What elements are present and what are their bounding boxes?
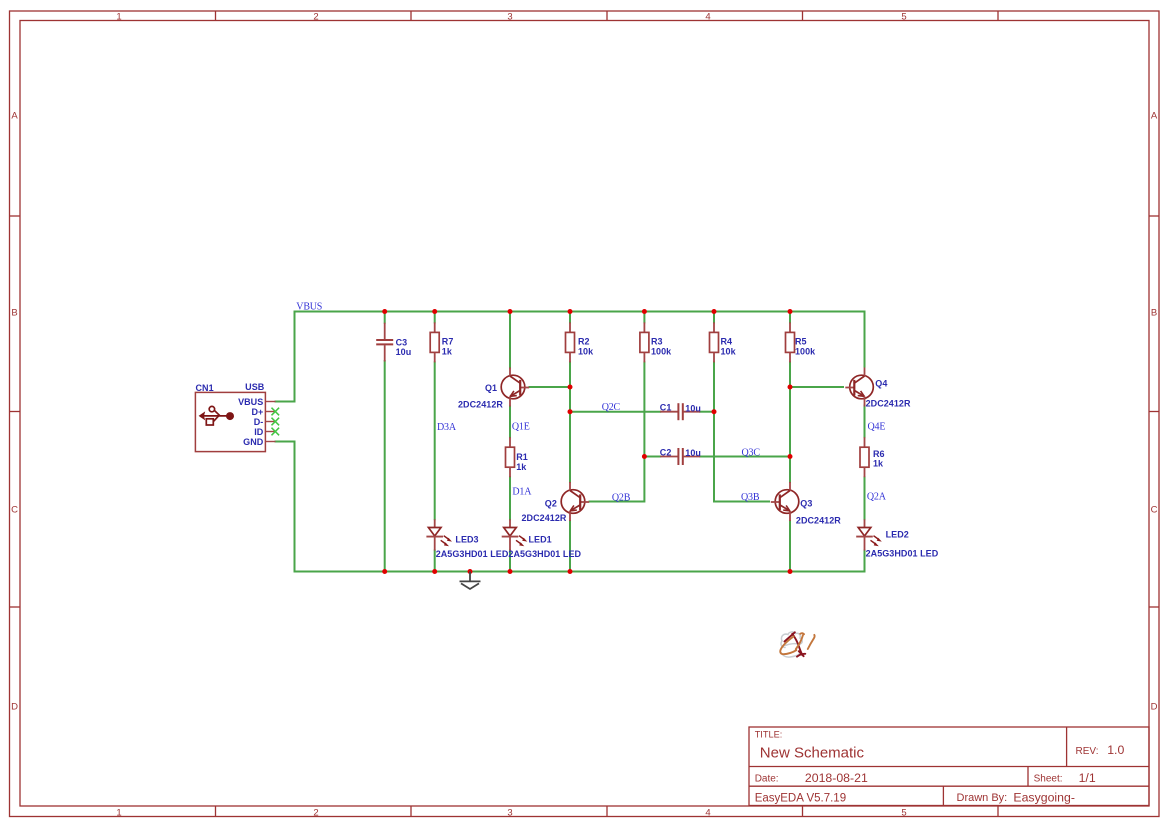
wire LED3 to rail bbox=[434, 551, 436, 572]
svg-text:2DC2412R: 2DC2412R bbox=[796, 515, 841, 525]
wire R5 bottom bbox=[789, 362, 791, 456]
node Q4 base bbox=[788, 385, 793, 390]
svg-text:Easygoing-: Easygoing- bbox=[1013, 791, 1075, 805]
resistor R2 bbox=[566, 322, 575, 362]
svg-text:GND: GND bbox=[243, 437, 264, 447]
svg-text:1: 1 bbox=[116, 12, 121, 23]
node Q3C/R3 bbox=[642, 454, 647, 459]
wire Q4 base from R5 column bbox=[790, 386, 843, 388]
pin GND bbox=[265, 441, 275, 443]
svg-text:1k: 1k bbox=[873, 459, 884, 469]
wire Q3 collector bbox=[789, 457, 791, 483]
node C3/VBUS bbox=[382, 309, 387, 314]
svg-text:D1A: D1A bbox=[512, 486, 532, 497]
node R3/VBUS bbox=[642, 309, 647, 314]
node C1/R4 bbox=[712, 409, 717, 414]
pin ID bbox=[265, 431, 274, 433]
wire C2 left (net Q3C) bbox=[644, 456, 660, 458]
wire Q2 base to R3 column (net Q2B) bbox=[590, 457, 645, 502]
svg-text:A: A bbox=[1151, 111, 1158, 122]
node R4/VBUS bbox=[712, 309, 717, 314]
node Q1 base bbox=[568, 385, 573, 390]
svg-text:Q2B: Q2B bbox=[612, 493, 631, 504]
wire R4 top bbox=[713, 312, 715, 323]
svg-text:10u: 10u bbox=[685, 448, 701, 458]
no-connect X on ID bbox=[272, 428, 280, 436]
svg-text:2A5G3HD01 LED: 2A5G3HD01 LED bbox=[508, 549, 581, 559]
wire Q1 base to R2 column bbox=[530, 386, 571, 388]
svg-text:Q2C: Q2C bbox=[602, 402, 621, 413]
svg-text:Q2: Q2 bbox=[545, 499, 557, 509]
node LED1/gnd rail bbox=[508, 569, 513, 574]
svg-text:1/1: 1/1 bbox=[1079, 771, 1096, 785]
node R7/VBUS bbox=[432, 309, 437, 314]
svg-text:C3: C3 bbox=[396, 338, 408, 348]
no-connect X on D- bbox=[272, 418, 280, 426]
signature scribble bbox=[780, 632, 814, 657]
transistor Q1 (2DC2412R NPN) bbox=[501, 368, 529, 407]
resistor R3 bbox=[640, 322, 649, 362]
svg-text:Q3: Q3 bbox=[800, 498, 812, 508]
LED LED3 (2A5G3HD01) bbox=[426, 519, 452, 550]
svg-text:4: 4 bbox=[705, 12, 710, 23]
svg-text:100k: 100k bbox=[795, 346, 816, 356]
svg-text:Q4: Q4 bbox=[875, 378, 887, 388]
node LED3/gnd rail bbox=[432, 569, 437, 574]
svg-text:LED2: LED2 bbox=[886, 530, 909, 540]
svg-text:10u: 10u bbox=[396, 347, 412, 357]
svg-text:ID: ID bbox=[254, 427, 264, 437]
svg-text:D3A: D3A bbox=[437, 422, 457, 433]
wire LED1 to rail bbox=[509, 551, 511, 572]
wire Q1 emitter to R1 (net Q1E) bbox=[509, 407, 511, 438]
svg-text:C2: C2 bbox=[660, 447, 672, 457]
svg-text:1k: 1k bbox=[442, 346, 453, 356]
svg-text:A: A bbox=[11, 111, 18, 122]
wire Q4 emitter to R6 (net Q4E) bbox=[864, 406, 866, 438]
transistor Q3 (2DC2412R NPN, mirrored) bbox=[771, 482, 799, 521]
svg-text:LED3: LED3 bbox=[455, 534, 478, 544]
node C3/gnd rail bbox=[382, 569, 387, 574]
USB icon bbox=[204, 406, 227, 425]
svg-text:5: 5 bbox=[901, 12, 906, 23]
wire R1 to LED1 (net D1A) bbox=[509, 477, 511, 519]
node Q2C bbox=[568, 409, 573, 414]
svg-text:D: D bbox=[1151, 702, 1158, 713]
svg-text:1k: 1k bbox=[516, 462, 527, 472]
svg-text:D-: D- bbox=[254, 417, 264, 427]
svg-text:Sheet:: Sheet: bbox=[1034, 774, 1063, 785]
svg-text:1: 1 bbox=[116, 808, 121, 819]
svg-text:Q1: Q1 bbox=[485, 383, 497, 393]
resistor R1 bbox=[506, 437, 515, 477]
svg-text:2: 2 bbox=[313, 808, 318, 819]
wire C1 to R4 column bbox=[700, 411, 714, 413]
wire C3 bottom bbox=[384, 361, 386, 572]
wire C3 top bbox=[384, 312, 386, 323]
svg-text:B: B bbox=[1151, 308, 1157, 319]
wire Q3 emitter to rail bbox=[789, 521, 791, 572]
svg-text:5: 5 bbox=[901, 808, 906, 819]
capacitor C1 bbox=[660, 403, 700, 420]
wire R3 bottom bbox=[643, 362, 645, 456]
wire R2 top bbox=[569, 312, 571, 323]
ground symbol bbox=[460, 572, 481, 590]
wire R7 top bbox=[434, 312, 436, 323]
wire C2 right to R5 column bbox=[700, 456, 790, 458]
svg-text:100k: 100k bbox=[651, 346, 672, 356]
svg-text:Drawn By:: Drawn By: bbox=[957, 792, 1008, 804]
wire bottom GND rail bbox=[295, 551, 865, 572]
svg-text:VBUS: VBUS bbox=[296, 301, 322, 312]
wire VBUS from CN1 to rail bbox=[276, 312, 295, 402]
svg-text:Q4E: Q4E bbox=[868, 421, 886, 432]
svg-text:D+: D+ bbox=[251, 407, 263, 417]
resistor R5 bbox=[786, 322, 795, 362]
svg-text:2: 2 bbox=[313, 12, 318, 23]
svg-text:1.0: 1.0 bbox=[1107, 743, 1124, 757]
svg-text:D: D bbox=[11, 702, 18, 713]
svg-text:R4: R4 bbox=[721, 337, 733, 347]
resistor R6 bbox=[860, 437, 869, 477]
svg-text:R6: R6 bbox=[873, 449, 885, 459]
node R2/VBUS bbox=[568, 309, 573, 314]
svg-text:2A5G3HD01 LED: 2A5G3HD01 LED bbox=[436, 549, 509, 559]
resistor R4 bbox=[710, 322, 719, 362]
node Q2E/gnd rail bbox=[568, 569, 573, 574]
junction dots bbox=[382, 309, 792, 574]
capacitor C3 bbox=[376, 323, 393, 362]
svg-text:R3: R3 bbox=[651, 337, 663, 347]
svg-text:VBUS: VBUS bbox=[238, 397, 263, 407]
wire Q2 emitter to rail bbox=[569, 521, 571, 572]
svg-text:TITLE:: TITLE: bbox=[755, 729, 783, 739]
wire R7 to LED3 (net D3A) bbox=[434, 362, 436, 519]
node R5/VBUS bbox=[788, 309, 793, 314]
LED LED2 (2A5G3HD01) bbox=[856, 519, 882, 550]
svg-text:R7: R7 bbox=[442, 337, 454, 347]
wire net Q2C to C1 bbox=[570, 411, 660, 413]
node Q3E/gnd rail bbox=[788, 569, 793, 574]
svg-text:3: 3 bbox=[507, 808, 512, 819]
svg-text:C1: C1 bbox=[660, 403, 672, 413]
pin VBUS bbox=[265, 401, 275, 403]
transistor Q2 (2DC2412R NPN) bbox=[561, 482, 589, 521]
svg-text:USB: USB bbox=[245, 382, 265, 392]
svg-text:R1: R1 bbox=[516, 452, 528, 462]
svg-text:10u: 10u bbox=[685, 403, 701, 413]
svg-text:2A5G3HD01 LED: 2A5G3HD01 LED bbox=[866, 549, 939, 559]
svg-text:2DC2412R: 2DC2412R bbox=[522, 513, 567, 523]
wire R6 to LED2 (net Q2A) bbox=[864, 477, 866, 519]
svg-text:C: C bbox=[11, 505, 18, 516]
svg-text:Q1E: Q1E bbox=[512, 422, 530, 433]
LED LED1 (2A5G3HD01) bbox=[502, 519, 528, 550]
svg-text:EasyEDA V5.7.19: EasyEDA V5.7.19 bbox=[755, 792, 846, 804]
svg-text:LED1: LED1 bbox=[529, 534, 552, 544]
capacitor C2 bbox=[660, 448, 700, 465]
wire Q1 collector bbox=[509, 312, 511, 368]
svg-text:B: B bbox=[11, 308, 17, 319]
svg-text:R2: R2 bbox=[578, 337, 590, 347]
transistor Q4 (2DC2412R NPN, mirrored) bbox=[845, 368, 873, 407]
resistor R7 bbox=[430, 322, 439, 362]
svg-text:R5: R5 bbox=[795, 337, 807, 347]
svg-text:CN1: CN1 bbox=[196, 383, 214, 393]
pin D+ bbox=[265, 411, 274, 413]
svg-text:REV:: REV: bbox=[1076, 746, 1099, 757]
wire R4 bottom to Q3 base (net Q3B) bbox=[714, 362, 769, 501]
wire VBUS top rail bbox=[295, 312, 865, 367]
svg-text:New Schematic: New Schematic bbox=[760, 744, 865, 761]
svg-text:Q3C: Q3C bbox=[742, 447, 761, 458]
svg-text:Date:: Date: bbox=[755, 774, 779, 785]
svg-text:2DC2412R: 2DC2412R bbox=[458, 399, 503, 409]
wire R5 top bbox=[789, 312, 791, 323]
no-connect X on D+ bbox=[272, 408, 280, 436]
wire R2 bottom to Q2 collector bbox=[569, 362, 571, 482]
svg-text:4: 4 bbox=[705, 808, 710, 819]
svg-text:2018-08-21: 2018-08-21 bbox=[805, 771, 868, 785]
svg-text:3: 3 bbox=[507, 12, 512, 23]
svg-text:2DC2412R: 2DC2412R bbox=[866, 399, 911, 409]
node Q3C/R5 bbox=[788, 454, 793, 459]
node Q1C/VBUS bbox=[508, 309, 513, 314]
svg-text:10k: 10k bbox=[578, 346, 594, 356]
svg-text:Q3B: Q3B bbox=[741, 492, 760, 503]
svg-text:C: C bbox=[1151, 505, 1158, 516]
wire GND from CN1 to bottom rail bbox=[276, 442, 295, 572]
svg-text:Q2A: Q2A bbox=[867, 492, 887, 503]
wire R3 top bbox=[643, 312, 645, 323]
pin D- bbox=[265, 421, 274, 423]
svg-text:10k: 10k bbox=[721, 346, 737, 356]
connector CN1 (USB) bbox=[195, 392, 279, 451]
TITLE BLOCK bbox=[749, 727, 1149, 806]
node gnd symbol/rail bbox=[468, 569, 473, 574]
